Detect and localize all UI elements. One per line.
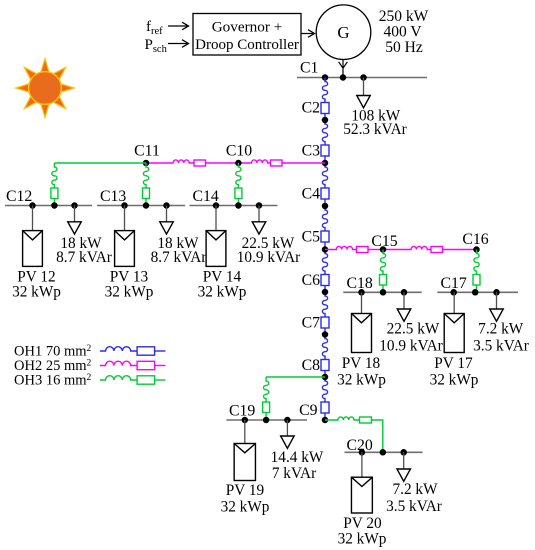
svg-text:C11: C11 <box>134 143 160 160</box>
bus C18 <box>343 291 421 293</box>
svg-text:400 V: 400 V <box>383 24 422 41</box>
wire OH3 drop to C12 <box>52 163 57 188</box>
node C18 load junction <box>401 289 408 296</box>
node C20 load junction <box>400 449 407 456</box>
wire OH1 segment C4-C5 <box>322 206 327 231</box>
svg-text:10.9 kVAr: 10.9 kVAr <box>379 338 442 355</box>
load at C19 <box>286 420 288 436</box>
wire OH3 drop to C19 <box>264 377 269 402</box>
svg-text:Droop Controller: Droop Controller <box>195 37 299 53</box>
svg-text:50 Hz: 50 Hz <box>385 39 423 56</box>
sun icon <box>16 59 75 118</box>
generator G1 circle <box>316 5 371 60</box>
load at C18 <box>403 292 405 309</box>
svg-text:10.9 kVAr: 10.9 kVAr <box>237 249 300 266</box>
svg-text:C18: C18 <box>347 275 373 292</box>
PV panel PV 17 <box>453 292 455 313</box>
load at C14 <box>258 206 260 222</box>
wire OH1 segment C2-C3 <box>322 120 327 145</box>
bus C19 <box>226 419 307 421</box>
node C20 PV junction <box>359 449 366 456</box>
svg-text:fref: fref <box>146 19 163 37</box>
node C7 <box>322 331 329 338</box>
legend symbol OH3 16 mm2 <box>100 376 137 380</box>
PV panel PV 12 <box>32 206 34 231</box>
wire OH2 segment C11-C10 <box>146 160 194 163</box>
node C1 generator junction <box>340 74 347 81</box>
node C19 load junction <box>284 417 291 424</box>
wire OH3 drop C11 to C13 <box>143 163 148 188</box>
node C12 load junction <box>71 202 78 209</box>
svg-text:C12: C12 <box>6 188 32 205</box>
svg-text:C1: C1 <box>300 60 318 77</box>
wire OH3 C11 to corner above C12 <box>54 162 146 164</box>
svg-text:PV 19: PV 19 <box>226 482 265 499</box>
arrow controller to generator <box>301 30 315 38</box>
svg-text:7 kVAr: 7 kVAr <box>272 465 316 482</box>
PV panel PV 13 <box>124 206 126 231</box>
svg-text:C7: C7 <box>302 315 321 332</box>
wire OH3 drop C10 to C14 <box>236 163 241 188</box>
wire OH3 drop C15 to C18 <box>380 250 385 275</box>
svg-text:32 kWp: 32 kWp <box>105 284 154 301</box>
wire OH1 segment C8-C9 <box>322 377 327 402</box>
svg-text:C15: C15 <box>371 233 397 250</box>
svg-text:32 kWp: 32 kWp <box>221 499 270 516</box>
wire OH2 segment C10-C3 <box>238 160 270 163</box>
legend symbol OH1 70 mm2 <box>100 347 137 351</box>
controller block U1 (Governor + Droop Controller) <box>193 14 301 56</box>
svg-text:G: G <box>337 23 349 42</box>
node C13 PV junction <box>121 202 128 209</box>
load at C1 <box>363 78 365 96</box>
node C1 feeder junction <box>322 74 329 81</box>
wire OH1 segment C5-C6 <box>322 250 327 275</box>
svg-text:32 kWp: 32 kWp <box>430 372 479 389</box>
svg-text:PV 20: PV 20 <box>343 515 382 532</box>
node C20 feed junction <box>380 449 387 456</box>
node C15 <box>380 246 387 253</box>
wire OH3 C8 to corner above C19 <box>266 376 325 378</box>
svg-text:Governor +: Governor + <box>212 19 283 36</box>
node C9 <box>322 417 329 424</box>
svg-text:C13: C13 <box>100 188 126 205</box>
node C17 feed junction <box>472 289 479 296</box>
bus C17 <box>437 291 518 293</box>
bus C12 <box>5 205 92 207</box>
wire OH1 segment C7-C8 <box>322 335 327 360</box>
svg-text:32 kWp: 32 kWp <box>337 372 386 389</box>
svg-text:C10: C10 <box>226 143 252 160</box>
node C6 <box>322 289 329 296</box>
PV panel PV 14 <box>215 206 217 231</box>
node C14 PV junction <box>213 202 220 209</box>
svg-text:C6: C6 <box>302 272 321 289</box>
node C16 <box>473 246 480 253</box>
wire generator to bus C1 with arrowhead <box>339 60 348 78</box>
svg-text:C16: C16 <box>462 231 488 248</box>
node C18 feed junction <box>380 289 387 296</box>
svg-text:C9: C9 <box>299 402 318 419</box>
node C2 <box>322 117 329 124</box>
load at C20 <box>403 452 405 469</box>
node C3 <box>322 160 329 167</box>
svg-text:C2: C2 <box>302 100 321 117</box>
svg-text:PV 18: PV 18 <box>342 355 381 372</box>
node C1 load junction <box>360 74 367 81</box>
wire OH3 C9 to C20 with coil and rect <box>325 417 360 420</box>
legend symbol OH2 25 mm2 <box>100 361 137 365</box>
load at C17 <box>496 292 498 309</box>
wire OH2 segment C5-C15 <box>325 246 357 249</box>
arrow P_sch to controller <box>168 40 189 48</box>
node C19 PV junction <box>242 417 249 424</box>
wire OH1 segment C6-C7 <box>322 292 327 317</box>
bus C1 <box>297 77 427 79</box>
svg-text:C3: C3 <box>302 143 321 160</box>
svg-text:32 kWp: 32 kWp <box>338 531 387 548</box>
node C14 feed junction <box>235 202 242 209</box>
svg-text:C19: C19 <box>229 403 255 420</box>
bus C13 <box>97 205 185 207</box>
svg-text:8.7 kVAr: 8.7 kVAr <box>56 249 112 266</box>
bus C14 <box>190 205 278 207</box>
wire OH1 segment C1-C2 <box>322 78 327 103</box>
PV panel PV 18 <box>361 292 363 313</box>
node C19 feed junction <box>263 417 270 424</box>
node C10 <box>235 160 242 167</box>
svg-text:250 kW: 250 kW <box>379 8 429 25</box>
arrow f_ref to controller <box>168 22 189 30</box>
node C4 <box>322 203 329 210</box>
svg-text:22.5 kW: 22.5 kW <box>387 321 440 338</box>
PV panel PV 20 <box>361 452 363 477</box>
PV panel PV 19 <box>244 420 246 444</box>
node C5 <box>322 246 329 253</box>
load at C13 <box>166 206 168 222</box>
svg-text:Psch: Psch <box>145 37 168 55</box>
svg-text:52.3 kVAr: 52.3 kVAr <box>343 121 406 138</box>
svg-text:14.4 kW: 14.4 kW <box>271 449 324 466</box>
wire OH2 segment C15-C16 <box>383 246 431 249</box>
load at C12 <box>74 206 76 222</box>
bus C20 <box>345 451 423 453</box>
svg-text:3.5 kVAr: 3.5 kVAr <box>386 498 442 515</box>
node C17 PV junction <box>450 289 457 296</box>
svg-text:C8: C8 <box>302 357 321 374</box>
wire OH3 drop C16 to C17 <box>474 250 479 275</box>
node C12 PV junction <box>29 202 36 209</box>
wire OH1 segment C3-C4 <box>322 163 327 188</box>
node C12 feed junction <box>51 202 58 209</box>
svg-text:7.2 kW: 7.2 kW <box>478 321 524 338</box>
svg-text:PV 17: PV 17 <box>434 355 473 372</box>
node C11 <box>143 160 150 167</box>
node C13 load junction <box>163 202 170 209</box>
svg-text:OH3 16 mm2: OH3 16 mm2 <box>14 373 92 389</box>
svg-text:C4: C4 <box>302 186 321 203</box>
svg-text:7.2 kW: 7.2 kW <box>392 481 438 498</box>
node C17 load junction <box>493 289 500 296</box>
node C8 <box>322 374 329 381</box>
svg-text:8.7 kVAr: 8.7 kVAr <box>151 249 207 266</box>
svg-text:32 kWp: 32 kWp <box>198 284 247 301</box>
svg-text:3.5 kVAr: 3.5 kVAr <box>473 338 529 355</box>
node C14 load junction <box>256 202 263 209</box>
node C13 feed junction <box>143 202 150 209</box>
svg-text:C5: C5 <box>302 229 321 246</box>
svg-text:32 kWp: 32 kWp <box>12 284 61 301</box>
node C18 PV junction <box>358 289 365 296</box>
